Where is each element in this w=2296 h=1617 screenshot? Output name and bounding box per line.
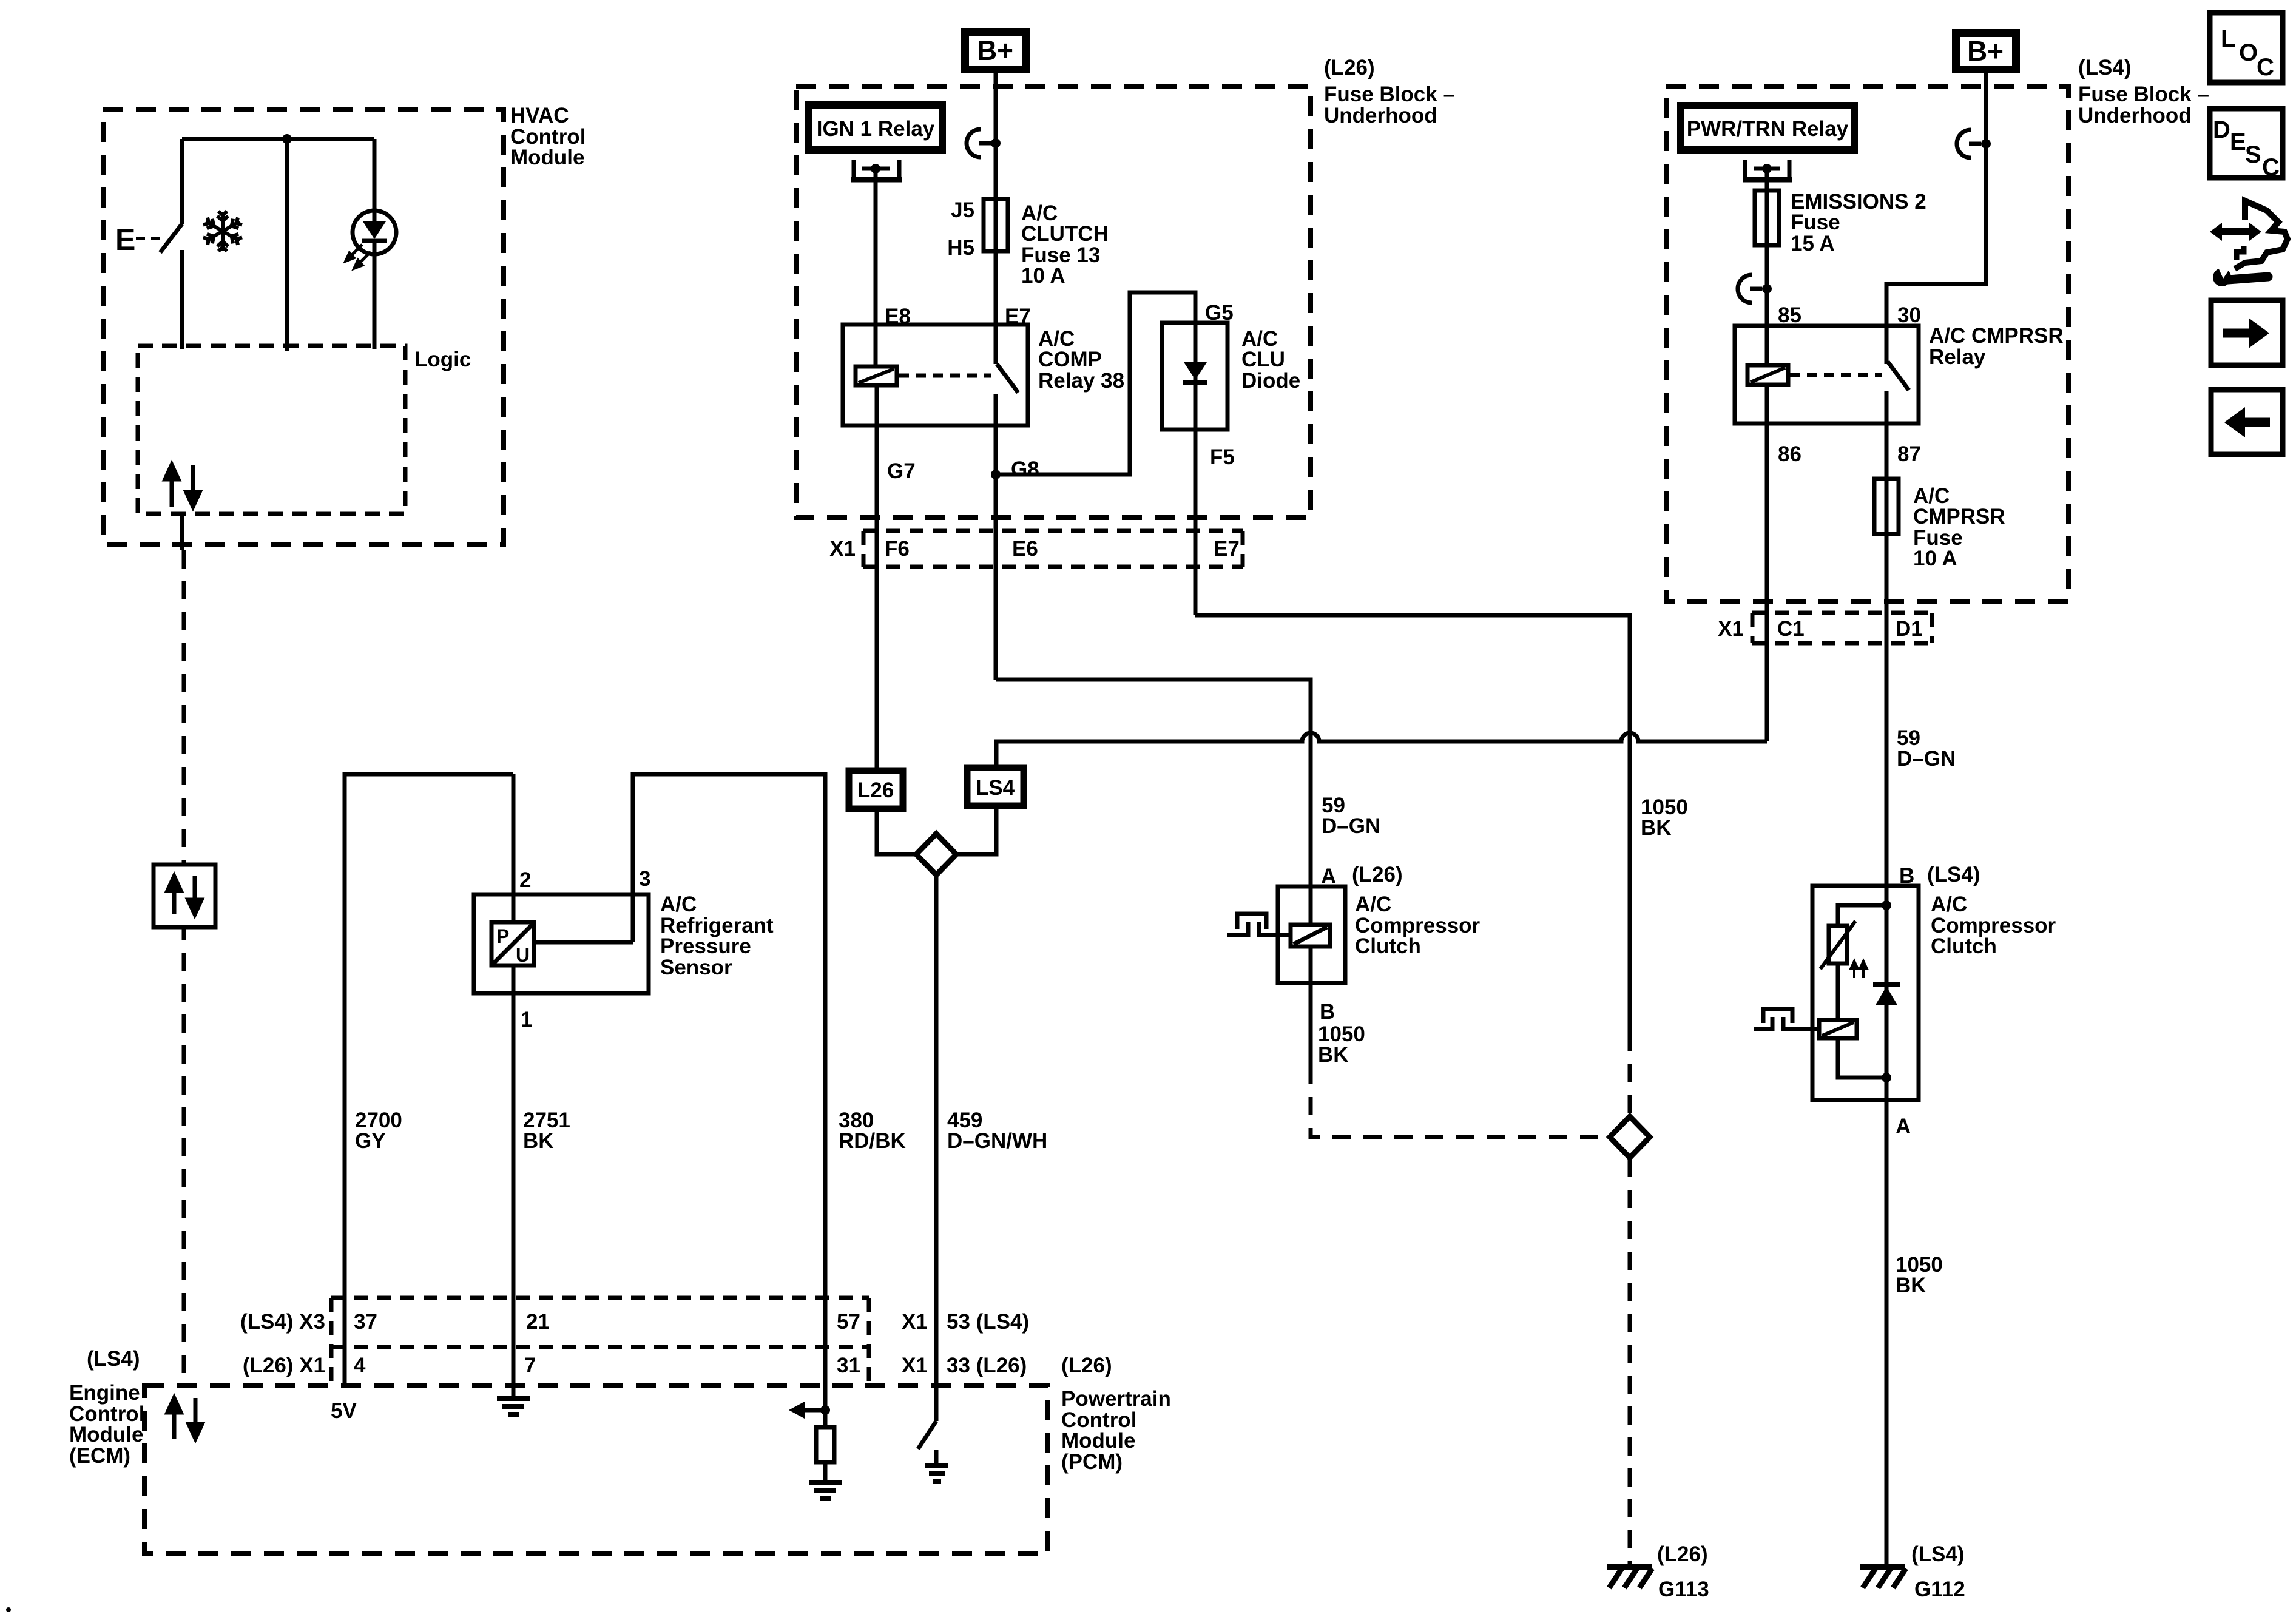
svg-text:B: B: [1320, 1000, 1335, 1024]
PCM driver switch on 459 circuit: [918, 1421, 936, 1449]
wire: E8 feed from IGN1 relay to A/C COMP relay coil: [874, 169, 878, 366]
serial data arrows inside ECM: [167, 1398, 202, 1439]
svg-text:33 (L26): 33 (L26): [947, 1354, 1027, 1377]
signal ground at pin 7/21: [497, 1386, 530, 1414]
svg-text:Engine: Engine: [69, 1381, 140, 1405]
svg-text:87: 87: [1897, 442, 1921, 466]
node: LS4 clutch top junction: [1882, 900, 1891, 910]
wire: 459 D-GN/WH from diamond to PCM: [934, 875, 939, 1421]
svg-text:37: 37: [354, 1310, 377, 1334]
svg-text:L: L: [2221, 25, 2235, 52]
svg-text:Relay: Relay: [1929, 345, 1986, 369]
wire: LS4 tag to splice diamond: [955, 806, 996, 854]
svg-text:53 (LS4): 53 (LS4): [947, 1310, 1029, 1334]
splice diamond (engine option merge): [916, 834, 956, 875]
svg-text:86: 86: [1778, 442, 1801, 466]
diode symbol: [1184, 362, 1207, 380]
fuse EMISSIONS 2 15A: [1755, 190, 1926, 255]
wire: E6 drop from G8: [994, 474, 998, 680]
svg-text:Logic: Logic: [414, 348, 471, 371]
svg-text:(LS4): (LS4): [87, 1347, 140, 1371]
wire: pin 1 signal return 2751 BK: [512, 965, 516, 1386]
svg-text:10 A: 10 A: [1913, 547, 1957, 570]
svg-text:21: 21: [526, 1310, 550, 1334]
svg-text:B+: B+: [977, 35, 1013, 66]
wire: B+ to relay terminal 30: [1886, 73, 1986, 364]
fuse A/C CLUTCH Fuse 13 (J5/H5): [947, 198, 1109, 288]
svg-text:Fuse Block –: Fuse Block –: [1324, 83, 1455, 106]
svg-text:C: C: [2262, 154, 2280, 181]
connector row X1 (LS4 fuse block bottom): [1718, 613, 1932, 643]
svg-text:BK: BK: [523, 1129, 554, 1153]
svg-text:Fuse Block –: Fuse Block –: [2078, 83, 2209, 106]
svg-text:(PCM): (PCM): [1061, 1450, 1123, 1474]
IGN 1 relay coil bracket: [851, 160, 902, 180]
svg-text:E: E: [115, 223, 135, 257]
L26 clutch coil: [1291, 925, 1330, 947]
svg-text:E: E: [2230, 129, 2246, 155]
net tag L26: [849, 771, 903, 809]
wire: LS4 clutch internal main lead: [1885, 886, 1889, 1100]
svg-text:CLUTCH: CLUTCH: [1021, 222, 1109, 246]
serial data arrows inside Logic: [165, 465, 200, 507]
svg-text:COMP: COMP: [1038, 348, 1102, 371]
svg-text:Relay 38: Relay 38: [1038, 369, 1124, 393]
svg-text:D: D: [2213, 116, 2230, 143]
thermistor rise arrows: [1851, 961, 1867, 978]
node: junction on HVAC bus: [282, 134, 292, 144]
B+ power symbol (L26): [961, 28, 1030, 73]
svg-text:CMPRSR: CMPRSR: [1913, 505, 2005, 528]
svg-text:Underhood: Underhood: [1324, 104, 1437, 127]
svg-text:85: 85: [1778, 303, 1801, 327]
svg-text:E7: E7: [1214, 537, 1240, 561]
svg-text:Module: Module: [510, 146, 584, 169]
svg-text:D–GN: D–GN: [1897, 747, 1956, 771]
svg-text:Module: Module: [69, 1423, 143, 1447]
svg-text:30: 30: [1897, 303, 1921, 327]
svg-text:Pressure: Pressure: [660, 934, 751, 958]
PWR/TRN Relay label box: [1677, 102, 1858, 154]
svg-text:Fuse: Fuse: [1791, 211, 1840, 234]
splice diamond (ground merge, L26): [1610, 1116, 1650, 1158]
wire: coil bottom to G7/F6: [875, 385, 879, 771]
B+ power symbol (LS4): [1952, 29, 2020, 73]
relay 38 coil: [856, 366, 897, 385]
wire: LS4 clutch A to G112: [1885, 1100, 1889, 1567]
svg-text:P: P: [496, 925, 509, 947]
svg-text:G113: G113: [1658, 1578, 1709, 1601]
svg-text:D–GN/WH: D–GN/WH: [947, 1129, 1047, 1153]
relay 38 switch arm: [997, 364, 1018, 393]
svg-text:LS4: LS4: [976, 776, 1015, 800]
svg-text:(L26): (L26): [1657, 1542, 1708, 1566]
PWM signal glyph (L26 clutch): [1227, 914, 1291, 935]
svg-text:G8: G8: [1011, 457, 1039, 481]
wire through diode: [1194, 323, 1198, 430]
svg-text:(L26): (L26): [1352, 863, 1403, 886]
svg-text:O: O: [2239, 39, 2258, 66]
svg-text:57: 57: [837, 1310, 860, 1334]
svg-text:X1: X1: [1718, 617, 1744, 641]
sensor P/U transducer box: [491, 922, 534, 966]
svg-text:GY: GY: [355, 1129, 386, 1153]
svg-text:L26: L26: [857, 778, 894, 802]
svg-text:4: 4: [354, 1354, 366, 1377]
svg-text:3: 3: [639, 867, 650, 891]
svg-text:HVAC: HVAC: [510, 104, 569, 127]
svg-text:E6: E6: [1012, 537, 1038, 561]
svg-text:BK: BK: [1641, 816, 1672, 840]
svg-text:A/C: A/C: [660, 893, 697, 916]
wire: B+ to fuse J5: [994, 73, 998, 364]
LS4 clutch coil: [1819, 1020, 1857, 1038]
switch S lower stub: [180, 250, 184, 349]
snowflake icon: [203, 211, 243, 251]
svg-text:Clutch: Clutch: [1931, 934, 1997, 958]
wire: top bus inside HVAC: [182, 137, 374, 141]
ground G112: [1860, 1542, 1965, 1601]
Fuse Block Underhood (L26) dashed box: [796, 56, 1455, 518]
svg-text:(LS4) X3: (LS4) X3: [240, 1310, 325, 1334]
svg-text:IGN 1 Relay: IGN 1 Relay: [817, 117, 935, 141]
svg-text:(L26): (L26): [1061, 1354, 1112, 1377]
LED D1 circle: [353, 211, 396, 254]
svg-text:D1: D1: [1896, 617, 1923, 641]
relay switch arm: [1888, 362, 1909, 390]
svg-text:(LS4): (LS4): [1911, 1542, 1965, 1566]
svg-text:Powertrain: Powertrain: [1061, 1387, 1171, 1411]
wire: junction to resistor: [823, 1410, 828, 1427]
wire: switch to ground stub: [934, 1450, 939, 1466]
wire: coil bottom to 86/C1: [1765, 385, 1769, 741]
svg-text:1: 1: [521, 1008, 532, 1031]
wire: relay 38 switch lower stub to G8: [994, 394, 998, 474]
relay 38 actuator dashed link: [899, 374, 991, 378]
thermistor (LS4 clutch): [1820, 921, 1855, 969]
A/C Refrigerant Pressure Sensor box: [474, 893, 774, 993]
svg-text:U: U: [516, 944, 530, 966]
back arrow nav box: [2211, 390, 2283, 454]
net tag LS4: [967, 768, 1024, 806]
forward arrow nav box: [2211, 300, 2283, 365]
Engine/Powertrain Control Module dashed box: [69, 1347, 1171, 1553]
svg-text:CLU: CLU: [1241, 348, 1285, 371]
svg-text:Diode: Diode: [1241, 369, 1300, 393]
svg-text:A/C CMPRSR: A/C CMPRSR: [1929, 324, 2064, 348]
svg-text:X1: X1: [829, 537, 856, 561]
switch S (A/C request) upper stub: [180, 139, 184, 224]
wire: coil bracket to EMISSIONS 2 fuse: [1765, 169, 1769, 365]
svg-text:D–GN: D–GN: [1322, 814, 1380, 838]
in-line lead hook on 85 wire: [1738, 275, 1752, 303]
svg-text:G7: G7: [887, 459, 916, 483]
page period mark: [6, 1607, 11, 1612]
svg-text:Module: Module: [1061, 1429, 1135, 1453]
svg-text:A/C: A/C: [1355, 893, 1391, 916]
svg-text:H5: H5: [947, 236, 974, 260]
node: 85 tap: [1762, 284, 1772, 294]
LED photon arrows: [346, 245, 371, 268]
ground G113: [1607, 1542, 1709, 1601]
svg-text:C: C: [2257, 54, 2274, 81]
suppression diode (LS4 clutch): [1873, 982, 1900, 987]
svg-text:J5: J5: [951, 198, 974, 222]
LOC nav box: [2210, 13, 2283, 83]
svg-text:C1: C1: [1777, 617, 1805, 641]
wire: dashed splice to G113: [1628, 1159, 1632, 1567]
svg-text:X1: X1: [902, 1354, 928, 1377]
DESC nav box: [2210, 109, 2283, 181]
svg-text:15 A: 15 A: [1791, 232, 1835, 255]
svg-text:2: 2: [519, 868, 531, 892]
Logic box: [138, 346, 471, 514]
wire: LS4 tag up and across to C1, hops over crossing wires: [996, 733, 1767, 768]
IGN 1 Relay label box: [805, 101, 946, 154]
wire: E7/diode to 1050 BK branch: [1195, 615, 1630, 1033]
wire: switch lower stub 87: [1885, 391, 1889, 886]
svg-text:7: 7: [524, 1354, 536, 1377]
node: pull-up junction at pin 31/57: [820, 1405, 830, 1415]
svg-text:G112: G112: [1914, 1578, 1965, 1601]
Fuse Block Underhood (LS4) dashed box: [1666, 56, 2209, 601]
wire: pin 2 into sensor: [512, 774, 516, 922]
svg-text:BK: BK: [1318, 1043, 1349, 1067]
wire: thermistor to LS4 coil: [1836, 964, 1840, 1020]
relay A/C COMP Relay 38 box: [843, 325, 1124, 425]
svg-text:Sensor: Sensor: [660, 956, 732, 979]
relay actuator dashed link: [1790, 373, 1882, 377]
wire: 2700 GY 5V supply: [345, 774, 513, 1386]
node: G8 junction: [991, 470, 1001, 479]
PWR/TRN relay coil bracket: [1743, 160, 1792, 180]
svg-text:31: 31: [837, 1354, 860, 1377]
serial data connector box on wire: [154, 865, 215, 927]
svg-text:BK: BK: [1896, 1274, 1926, 1297]
node: B+ LS4 tap: [1981, 139, 1991, 149]
node: LS4 clutch bottom junction: [1882, 1073, 1891, 1082]
in-line lead hook at B+ wire: [967, 129, 981, 157]
fuse A/C CMPRSR Fuse 10A: [1874, 479, 2005, 570]
svg-text:PWR/TRN Relay: PWR/TRN Relay: [1687, 117, 1849, 141]
svg-text:F5: F5: [1210, 445, 1235, 469]
svg-text:(ECM): (ECM): [69, 1444, 130, 1468]
svg-text:Clutch: Clutch: [1355, 934, 1421, 958]
wire: dashed serial data HVAC to ECM: [180, 515, 184, 550]
pull-up resistor: [816, 1427, 834, 1462]
LED D1 triangle and cathode bar: [363, 221, 386, 239]
comparator input arrow: [802, 1408, 825, 1413]
signal ground under resistor: [809, 1483, 842, 1499]
wire: dashed 1050 BK to splice diamond: [1628, 1033, 1632, 1115]
wire: resistor to ground: [823, 1462, 828, 1483]
relay A/C CMPRSR Relay box: [1735, 324, 2064, 424]
A/C Compressor Clutch (L26) box: [1278, 886, 1481, 983]
wire: sensor internal link: [534, 940, 633, 945]
A/C CMPRSR relay coil: [1747, 365, 1788, 385]
svg-text:10 A: 10 A: [1021, 264, 1065, 288]
wire: G8 junction to diode G5: [996, 292, 1195, 474]
svg-text:Underhood: Underhood: [2078, 104, 2192, 127]
svg-text:A/C: A/C: [1931, 893, 1967, 916]
svg-text:(L26): (L26): [1324, 56, 1375, 79]
wire: dashed actuator E to switch: [136, 237, 165, 240]
wire: dashed B lead to splice: [1311, 1066, 1609, 1137]
wire: F5 drop: [1194, 430, 1198, 615]
diagnostic hand/wrench icon: [2210, 201, 2288, 286]
svg-text:(LS4): (LS4): [2078, 56, 2132, 79]
node: B+ tap: [991, 138, 1001, 148]
switch S arm: [160, 224, 182, 252]
svg-text:RD/BK: RD/BK: [839, 1129, 906, 1153]
signal ground under driver: [925, 1466, 948, 1482]
connector row X1 (L26 fuse block bottom): [829, 531, 1243, 567]
svg-text:5V: 5V: [331, 1399, 357, 1423]
svg-text:(LS4): (LS4): [1927, 863, 1980, 886]
svg-text:A: A: [1896, 1115, 1911, 1138]
wire: coil to lower junction: [1838, 1038, 1886, 1078]
wire: internal branch to thermistor: [1838, 905, 1886, 926]
A/C Compressor Clutch (LS4) box: [1812, 886, 2056, 1100]
svg-text:F6: F6: [885, 537, 910, 561]
HVAC Control Module box: [103, 104, 586, 544]
wire: E6 to A/C clutch A (59 D-GN L26): [996, 680, 1311, 925]
svg-text:B+: B+: [1967, 35, 2004, 67]
ECM/PCM connector rows: [240, 1298, 1029, 1386]
wire: logic sense drop: [285, 139, 289, 351]
LED D1 (A/C indicator) wires: [373, 139, 377, 222]
in-line lead hook on B+ (LS4) wire: [1957, 130, 1971, 158]
svg-text:(L26) X1: (L26) X1: [243, 1354, 325, 1377]
svg-text:S: S: [2245, 141, 2261, 168]
PWM signal glyph (LS4 clutch): [1754, 1009, 1819, 1029]
wire: 380 RD/BK signal to pin 3: [633, 774, 825, 1410]
diode box A/C CLU Diode: [1162, 323, 1300, 430]
svg-text:X1: X1: [902, 1310, 928, 1334]
wire: L26 tag to splice diamond: [877, 809, 917, 854]
wire: clutch L26 B lead: [1309, 947, 1313, 1066]
